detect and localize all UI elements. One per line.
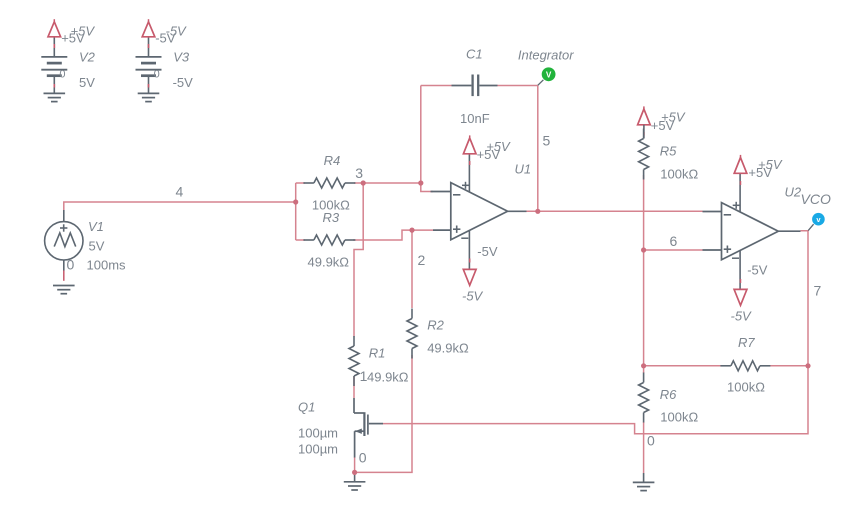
svg-text:3: 3 [355,165,363,181]
svg-text:VCO: VCO [801,191,831,207]
svg-text:0: 0 [359,450,367,466]
svg-text:100kΩ: 100kΩ [660,410,698,425]
svg-text:R5: R5 [660,143,677,158]
svg-text:+5V: +5V [758,157,783,172]
svg-text:49.9kΩ: 49.9kΩ [427,340,469,355]
svg-text:100µm: 100µm [298,442,338,457]
svg-text:R4: R4 [324,153,341,168]
svg-text:U1: U1 [515,162,532,177]
svg-text:6: 6 [670,233,678,249]
svg-text:V2: V2 [79,50,96,65]
svg-text:100kΩ: 100kΩ [727,380,765,395]
svg-text:+5V: +5V [661,110,686,125]
svg-text:-5V: -5V [462,289,484,304]
svg-text:5: 5 [543,133,551,149]
svg-text:0: 0 [67,257,75,273]
svg-text:49.9kΩ: 49.9kΩ [308,254,350,269]
svg-text:5V: 5V [79,75,95,90]
svg-text:4: 4 [176,184,184,200]
svg-text:V3: V3 [173,50,190,65]
svg-text:U2: U2 [785,185,802,200]
svg-text:R2: R2 [427,317,444,332]
svg-text:5V: 5V [89,239,105,254]
svg-text:100µm: 100µm [298,426,338,441]
svg-text:-5V: -5V [747,263,768,278]
svg-text:7: 7 [814,283,822,299]
svg-text:100kΩ: 100kΩ [660,166,698,181]
svg-text:2: 2 [418,252,426,268]
svg-text:100ms: 100ms [87,258,127,273]
svg-text:R1: R1 [369,346,386,361]
svg-text:-5V: -5V [173,75,194,90]
svg-text:C1: C1 [466,47,483,62]
svg-text:0: 0 [647,433,655,449]
svg-text:10nF: 10nF [460,111,490,126]
svg-text:-5V: -5V [477,244,498,259]
svg-text:-5V: -5V [166,24,188,39]
svg-text:+5V: +5V [71,24,96,39]
svg-text:Q1: Q1 [298,400,315,415]
svg-text:R7: R7 [738,335,755,350]
svg-text:+5V: +5V [486,139,511,154]
svg-text:R3: R3 [323,210,340,225]
svg-text:-5V: -5V [731,309,753,324]
svg-text:0: 0 [59,69,65,81]
svg-text:49.9kΩ: 49.9kΩ [367,369,409,384]
svg-text:V: V [546,71,552,80]
svg-text:0: 0 [154,69,160,81]
svg-text:R6: R6 [660,387,677,402]
svg-text:Integrator: Integrator [518,48,574,63]
svg-text:V1: V1 [88,219,104,234]
